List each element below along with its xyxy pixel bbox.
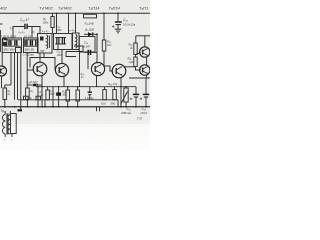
node bottom rail x21 bbox=[20, 106, 22, 108]
capacitor C18 plus bbox=[140, 98, 142, 100]
node bottom rail x14 bbox=[14, 106, 16, 108]
capacitor filter c-d bbox=[30, 40, 32, 45]
node y86 x126 bbox=[125, 86, 127, 88]
trimmer dark fill bbox=[3, 42, 6, 45]
wire rail drop x105 bbox=[103, 13, 105, 40]
transistor T7 bbox=[140, 65, 150, 75]
wire C16 box inner bottom bbox=[55, 43, 66, 45]
wire Tr2 right winding bottom lead bbox=[11, 134, 13, 138]
wire R13 top bbox=[104, 87, 106, 90]
node agc bbox=[78, 45, 80, 47]
wire T1 emitter down bbox=[1, 76, 3, 88]
wire R7 bottom bbox=[26, 100, 28, 107]
wire R6 top bbox=[4, 85, 6, 88]
wire T2 collector up bbox=[39, 53, 41, 63]
wire C14 right bbox=[28, 27, 40, 34]
capacitor C14 bbox=[25, 24, 27, 29]
transistor T2 bbox=[33, 62, 47, 76]
wire T5 collector to R16 node bbox=[124, 66, 136, 68]
wire filter output drop c bbox=[17, 52, 19, 100]
wire R12 to T5 base bbox=[104, 51, 113, 71]
node bottom rail x126 bbox=[125, 106, 127, 108]
wire agc vertical bbox=[78, 46, 80, 52]
wire drop x53 bbox=[52, 87, 54, 107]
wire bus right end to rail bbox=[117, 100, 119, 107]
capacitor C20 electrolytic plates bbox=[115, 22, 122, 25]
wire rail drop x75 bbox=[75, 13, 77, 33]
capacitor C15 stub bbox=[57, 44, 59, 50]
transistor T5 bbox=[112, 64, 126, 78]
resistor R7 bbox=[26, 88, 30, 100]
wire Tr2 right winding top lead bbox=[9, 111, 11, 115]
wire T7 emitter down bbox=[146, 75, 148, 78]
wire T2 emitter down bbox=[41, 75, 43, 86]
wire Tr2 left winding bottom lead bbox=[4, 134, 6, 137]
node bottom rail x53 bbox=[52, 106, 54, 108]
capacitor C20 plus sign bbox=[112, 25, 114, 27]
resistor R14 bbox=[113, 90, 117, 100]
node bus x67 bbox=[67, 86, 69, 88]
diode D1 bbox=[88, 32, 93, 36]
wire R15a top bbox=[67, 87, 69, 90]
transistor T4 bbox=[91, 62, 104, 75]
wire bus to rail connector bbox=[44, 100, 46, 107]
wire R15 top bbox=[135, 36, 137, 43]
capacitor C19 bar bbox=[36, 84, 38, 87]
capacitor C20 wire top bbox=[117, 13, 119, 21]
node diode output bbox=[96, 33, 98, 35]
wire C14 left vertical bbox=[13, 27, 24, 39]
wire C18 bottom bbox=[145, 97, 147, 107]
node rail x118 bbox=[117, 12, 119, 14]
IF transformer box L6 L7 bbox=[38, 34, 53, 54]
wire R8 top bbox=[47, 87, 49, 90]
wire filter output drop a bbox=[10, 52, 12, 85]
wire volume res top bbox=[77, 87, 79, 90]
wire T4 emitter down bbox=[96, 75, 98, 87]
capacitor C16b bbox=[62, 38, 64, 45]
filter block FSS box 1 bbox=[2, 38, 21, 53]
node bus x121 bbox=[120, 86, 122, 88]
capacitor filter c-a bbox=[9, 40, 11, 45]
wire agc mid horizontal bbox=[66, 51, 83, 53]
node bottom rail x67 bbox=[67, 106, 69, 108]
wire emitter bus drop bbox=[145, 78, 147, 94]
node rail x75 bbox=[75, 13, 77, 15]
wire R7 top from base node bbox=[26, 70, 28, 88]
wire C17 top bbox=[135, 87, 137, 94]
resistor R6 bbox=[3, 88, 7, 100]
svg-text:₃: ₃ bbox=[4, 137, 5, 141]
wire top supply rail bbox=[0, 12, 150, 14]
wire C19 left bbox=[27, 84, 33, 86]
wire agc lower bbox=[66, 52, 76, 57]
node rail x56 bbox=[56, 13, 58, 15]
wire filter output drop b bbox=[14, 52, 16, 100]
wire emitter bus y87 bbox=[36, 86, 136, 88]
node bottom rail x146 bbox=[145, 106, 147, 108]
IF cap box bbox=[54, 34, 73, 50]
node bus x77 bbox=[77, 86, 79, 88]
capacitor C17 plus bbox=[130, 98, 132, 100]
wire C22 bottom bbox=[58, 96, 60, 107]
wire right top horizontal bbox=[136, 35, 150, 37]
transformer Tr2 frame box bbox=[11, 114, 17, 134]
detector box bbox=[79, 37, 95, 53]
node bottom rail x38 bbox=[37, 106, 39, 108]
transistor T3 bbox=[55, 63, 68, 76]
wire C19 right bbox=[38, 84, 42, 86]
wire C23 bottom bbox=[89, 95, 91, 100]
ground under C20 bbox=[115, 29, 121, 33]
inductor L6 winding bbox=[47, 35, 48, 49]
diode D1 cathode bar bbox=[92, 32, 94, 36]
wire mid bottom bus bbox=[18, 99, 118, 101]
wire T3 collector up bbox=[61, 50, 63, 64]
wire R14 top bbox=[114, 87, 116, 90]
wire T2 emitter to rail bbox=[41, 87, 43, 107]
wire R15 to T6 base bbox=[136, 53, 141, 55]
wire rail drop x56.5 bbox=[56, 13, 58, 33]
node bus x38 bbox=[37, 86, 39, 88]
wire R9 bottom bbox=[52, 28, 54, 34]
transistor T6 bbox=[140, 47, 150, 57]
capacitor filter c-b bbox=[15, 40, 17, 45]
wire bottom ground rail bbox=[0, 106, 150, 108]
wire T3 base feed bbox=[44, 53, 56, 70]
wire left edge stub bbox=[0, 30, 1, 52]
wire stub below rail b bbox=[99, 107, 101, 112]
left edge dash bbox=[0, 23, 3, 25]
wire R16 to T7 base bbox=[136, 67, 141, 71]
capacitor C18 electrolytic plates bbox=[143, 94, 149, 97]
capacitor C19 dark body bbox=[33, 84, 36, 87]
resistor volume top bbox=[76, 90, 80, 101]
wire C22 top bbox=[58, 87, 60, 93]
node rail x105 bbox=[103, 12, 105, 14]
node bottom rail x45 bbox=[44, 106, 46, 108]
inductor L8 winding bbox=[76, 35, 77, 49]
node bottom rail x136 bbox=[135, 106, 137, 108]
transistor T1 partial left edge bbox=[0, 66, 7, 76]
resistor R15 bbox=[134, 43, 137, 55]
capacitor C22 dark body bbox=[56, 92, 61, 95]
wire drop x38 to rail bbox=[37, 87, 39, 107]
node bottom rail x58 bbox=[58, 106, 60, 108]
fuse box on bus a bbox=[24, 96, 29, 100]
wire filter box1 bottom bus bbox=[4, 45, 21, 47]
wire filter box2 bottom bus bbox=[24, 45, 38, 47]
wire R9 top bbox=[52, 13, 54, 16]
ground lug below rail left bbox=[18, 109, 23, 111]
wire detector coil down bbox=[79, 52, 81, 87]
wire filter box2 top bus bbox=[24, 39, 38, 41]
potentiometer R17 bbox=[124, 88, 128, 102]
trimmer box in filter bbox=[3, 39, 7, 46]
capacitor filter c-e bbox=[36, 40, 38, 45]
capacitor C16a bbox=[57, 38, 59, 45]
transformer Tr2 left winding bbox=[2, 114, 5, 133]
wire diode output drop bbox=[96, 34, 98, 63]
potentiometer R17 top wire bbox=[125, 87, 127, 88]
wire Tr2 left winding top lead bbox=[4, 111, 6, 114]
wire detector cap horizontal bbox=[84, 51, 97, 53]
wire stub x32 to box2 bbox=[31, 27, 33, 39]
node bottom rail x42 bbox=[41, 106, 43, 108]
wire T6 collector bbox=[144, 36, 146, 47]
wire T3 emitter down bbox=[63, 76, 65, 87]
node bus x58 bbox=[58, 86, 60, 88]
inductor L6 core line bbox=[48, 36, 50, 49]
wire C16 box inner top bbox=[55, 37, 66, 39]
node bottom rail x5 bbox=[4, 106, 6, 108]
wire filter box1 top bus bbox=[4, 39, 21, 41]
wire T2 collector loop bbox=[30, 58, 44, 68]
capacitor C17 electrolytic plates bbox=[133, 94, 139, 97]
resistor R10 in series with rail bbox=[84, 14, 97, 18]
scan noise overlay bbox=[0, 0, 150, 124]
resistor R13 bbox=[103, 90, 107, 100]
wire T5 emitter down bbox=[120, 77, 122, 107]
wire rail to transformer bbox=[20, 107, 22, 109]
fuse box on bus b bbox=[36, 96, 41, 100]
wire rail drop x68.5 bbox=[68, 13, 70, 33]
capacitor in detector box bbox=[88, 50, 90, 55]
node bottom rail x27 bbox=[27, 106, 29, 108]
resistor R12 bbox=[102, 40, 106, 51]
wire detector box to T4 base bbox=[87, 55, 89, 69]
wire R6 bottom bbox=[4, 100, 6, 107]
wire R15a bottom bbox=[67, 101, 69, 107]
potentiometer R17 wiper arrow bbox=[121, 92, 128, 105]
transformer Tr2 core bbox=[6, 114, 8, 135]
wire T2 base feed bbox=[27, 52, 34, 70]
wire C23 top bbox=[89, 87, 91, 93]
wire T6 emitter to T7 bbox=[146, 57, 148, 65]
wire diode left bbox=[84, 33, 97, 35]
filter block FSS box 2 bbox=[24, 38, 39, 53]
wire right emitter bus bbox=[129, 77, 150, 79]
resistor R8 bbox=[46, 90, 50, 100]
node rail x68 bbox=[68, 13, 70, 15]
wire C20 bottom bbox=[117, 25, 119, 29]
wire R6 to drop a bbox=[5, 84, 11, 86]
potentiometer R17 bottom wire bbox=[125, 102, 127, 107]
filter box1 lower small box bbox=[16, 48, 22, 53]
wire C17 bottom bbox=[135, 97, 137, 107]
transformer Tr2 right winding bbox=[8, 115, 10, 134]
IF transformer coil box bbox=[73, 33, 80, 50]
node bottom rail x77 bbox=[77, 106, 79, 108]
resistor R16 bbox=[134, 57, 137, 67]
trimmer capacitor in L6 box bbox=[40, 37, 44, 41]
wire T1 collector up bbox=[1, 52, 3, 66]
resistor R15a bbox=[66, 90, 70, 101]
wire R16 top join bbox=[135, 55, 137, 58]
capacitor C23 plates bbox=[88, 92, 92, 95]
wire volume bottom bbox=[77, 101, 79, 107]
wire stub below rail a bbox=[96, 107, 98, 112]
wire agc mesh top bbox=[74, 46, 83, 52]
capacitor filter c-c bbox=[25, 40, 27, 45]
resistor R9 bbox=[51, 17, 54, 28]
node bottom rail x121 bbox=[120, 106, 122, 108]
node bus x42 bbox=[41, 86, 43, 88]
wire filter output drop d bbox=[20, 52, 22, 107]
